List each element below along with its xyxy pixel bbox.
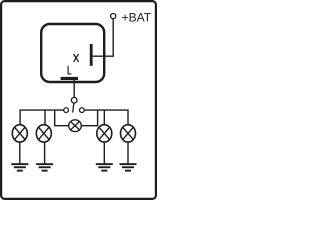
wire: inner-left lamp to ground [44,142,46,164]
ground (outer-left) [11,163,28,171]
wire: right bus to outer-right lamp [84,110,128,125]
switch S1 lever [73,103,74,112]
switch S1 left contact [64,108,69,113]
terminal L bar [61,77,78,80]
wire: left bus to outer-left lamp [20,110,64,125]
wire: L terminal to switch pole [73,79,75,98]
pilot lamp (centre indicator) [69,120,82,132]
svg-text:+BAT: +BAT [122,11,152,25]
wire: outer-right lamp to ground [127,142,129,164]
wire: left bus to pilot lamp [55,110,69,126]
terminal label L [68,66,71,74]
wire: terminal X lead through box wall to +BAT drop [93,19,114,57]
outer-right lamp [121,125,136,142]
wire: stub to inner-right lamp [103,110,105,126]
terminal label X [74,54,79,62]
terminal X plate [90,44,93,66]
wire: inner-right lamp to ground [103,142,105,164]
inner-right lamp [97,125,112,142]
ground (inner-left) [36,163,53,171]
ground (inner-right) [96,163,113,171]
ground (outer-right) [120,163,137,171]
wire: right bus to pilot lamp [81,110,98,126]
turn-signal switch S1 pole [71,97,77,103]
switch S1 right contact [80,108,85,113]
flasher relay unit U1 (rounded box) [41,24,104,82]
wire: outer-left lamp to ground [19,142,21,164]
inner-left lamp [36,125,51,142]
+BAT terminal [111,14,116,19]
outer-left lamp [12,125,27,142]
wire: stub to inner-left lamp [44,110,46,125]
